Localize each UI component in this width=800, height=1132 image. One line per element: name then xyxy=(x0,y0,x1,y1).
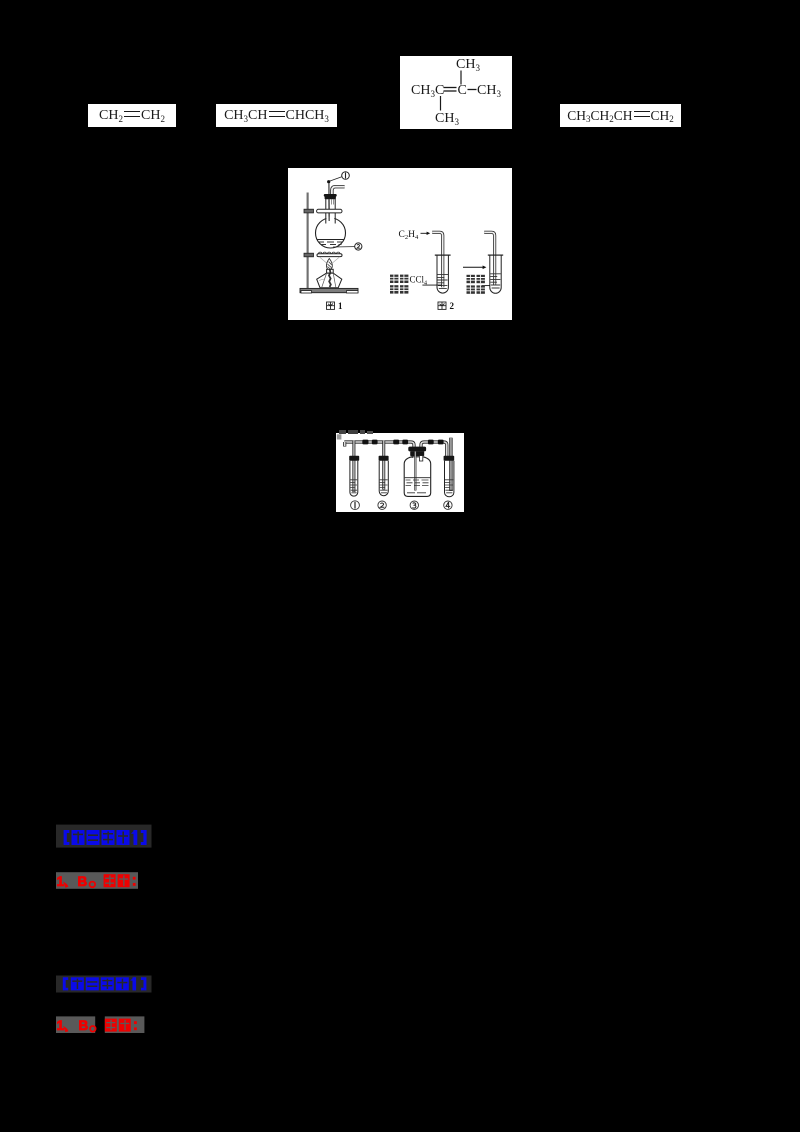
heat cone lines xyxy=(320,257,327,263)
circled 3 xyxy=(410,501,418,509)
svg-text:C2H4: C2H4 xyxy=(399,230,419,241)
wick collar xyxy=(327,269,334,273)
bromine CCl4 text line1 xyxy=(390,275,408,283)
svg-text:CH3: CH3 xyxy=(435,111,459,127)
line 1 glyph xi xyxy=(118,874,130,887)
label 2 leader line xyxy=(333,246,355,248)
rubber connector 4 xyxy=(402,440,408,445)
bottle stopper cap xyxy=(408,447,426,452)
left tube liquid xyxy=(437,275,448,289)
inner tube into tube2 xyxy=(382,441,385,490)
circled 2 xyxy=(378,501,386,509)
rubber connector 1 xyxy=(362,440,368,445)
svg-text:CH3C: CH3C xyxy=(411,83,444,99)
thermometer inside neck xyxy=(328,199,330,221)
line 1 colon xyxy=(133,877,136,880)
wick braid xyxy=(329,270,331,288)
alcohol lamp body xyxy=(317,273,342,288)
heading 1 glyph 1 xyxy=(72,830,85,845)
label 1 leader line xyxy=(329,177,342,182)
line 2 highlight backing b xyxy=(105,1016,145,1033)
line 1 full stop xyxy=(90,882,96,888)
cropped gray square remnant xyxy=(337,434,342,439)
svg-text:CCl4: CCl4 xyxy=(410,275,428,287)
figure 2 gas train white panel xyxy=(336,433,464,512)
line 1 comma xyxy=(63,882,68,888)
caption Fig2 glyph xyxy=(438,302,446,309)
test tube 1 glass xyxy=(350,461,358,496)
answer heading 2 xyxy=(56,974,153,994)
flask neck xyxy=(325,199,327,224)
heading 1 left bracket xyxy=(64,830,70,845)
heading 1 highlight backing xyxy=(56,825,152,848)
bromine CCl4 text line2 xyxy=(390,285,408,293)
cropped text remnants above gas train xyxy=(339,430,346,434)
stopper tube2 xyxy=(379,456,389,461)
right test tube xyxy=(490,255,501,293)
clamp knob upper xyxy=(304,209,314,213)
label 2 circle xyxy=(355,243,362,250)
double bond xyxy=(444,87,457,89)
delivery tube bent xyxy=(332,187,345,195)
heading 2 highlight backing xyxy=(56,976,152,993)
heading 1 digit xyxy=(134,830,138,845)
tube1 liquid xyxy=(350,480,357,493)
svg-text:2: 2 xyxy=(450,301,455,311)
bottle outlet stub xyxy=(419,456,422,461)
figure 1 apparatus white panel xyxy=(288,168,512,320)
svg-text:C: C xyxy=(458,83,467,98)
caption Fig1 glyph xyxy=(327,302,335,309)
flask bulb xyxy=(316,218,346,248)
bond top vertical xyxy=(460,71,462,85)
line 2 comma xyxy=(63,1026,68,1032)
clamp bar upper xyxy=(317,209,342,213)
heading 2 digit xyxy=(133,977,137,990)
heading 1 glyph 4 xyxy=(117,830,130,845)
colorless liquid text line1 xyxy=(467,275,485,283)
svg-text:1: 1 xyxy=(57,874,65,889)
svg-text:B: B xyxy=(79,1018,89,1033)
clamp knob lower xyxy=(304,253,314,257)
right bent delivery tube xyxy=(484,232,494,285)
inner tube into tube1 xyxy=(352,441,355,492)
test tube 4 glass xyxy=(445,461,454,497)
heading 2 left bracket xyxy=(63,977,68,990)
heading 2 glyph 3 xyxy=(101,977,114,990)
manifold left stub elbow xyxy=(343,442,346,447)
manifold tube run A into bottle xyxy=(344,442,414,449)
stand rod xyxy=(307,193,309,290)
single bond dash xyxy=(468,89,477,91)
colorless label pointer xyxy=(482,285,490,287)
wire gauze bumps xyxy=(319,252,340,254)
liquid level in flask xyxy=(317,239,344,241)
line 2 glyph xi xyxy=(119,1019,131,1032)
flame xyxy=(326,259,332,270)
left test tube xyxy=(437,255,448,293)
rubber connector 5 xyxy=(428,440,434,445)
stopper tube1 xyxy=(349,456,359,461)
thermometer top dot xyxy=(327,180,330,183)
manifold run B bottle to tube4 xyxy=(421,442,447,457)
answer line 2 xyxy=(56,1016,146,1034)
heading 1 glyph 2 xyxy=(87,830,100,845)
label 1 circle xyxy=(342,172,350,180)
formula box: 2-butene CH3CH=CHCH3 xyxy=(216,104,337,127)
left bent delivery tube xyxy=(432,232,443,287)
bond bottom vertical xyxy=(440,96,442,111)
gas washing bottle body xyxy=(404,457,431,497)
svg-text:1: 1 xyxy=(338,301,343,311)
line 2 highlight backing a xyxy=(56,1016,95,1033)
line 2 full stop xyxy=(90,1026,96,1032)
tall gray inlet tube of tube4 xyxy=(449,438,452,491)
heading 1 glyph 3 xyxy=(102,830,115,845)
inner tube stub in neck xyxy=(331,199,333,205)
line 1 glyph jie xyxy=(104,874,116,887)
middle arrow xyxy=(463,266,484,268)
rubber connector 6 xyxy=(438,440,444,445)
formula box: ethene CH2=CH2 xyxy=(88,104,176,127)
test tube 2 glass xyxy=(379,461,388,496)
C2H4 arrow xyxy=(421,232,428,234)
heading 2 right bracket xyxy=(141,977,146,990)
bromine label pointer xyxy=(422,284,442,286)
line 1 highlight backing xyxy=(56,872,138,889)
iron ring xyxy=(317,254,342,257)
thermometer stem xyxy=(328,183,330,243)
formula box: 2,3-dimethyl-2-butene structural formula xyxy=(400,56,512,129)
line 2 glyph jie xyxy=(105,1019,117,1032)
bottle inner tube xyxy=(414,452,416,491)
svg-text:CH3: CH3 xyxy=(456,57,480,73)
svg-text:CH3: CH3 xyxy=(477,83,501,99)
line 2 colon xyxy=(134,1021,137,1024)
gas washing bottle neck xyxy=(411,456,413,458)
heading 1 right bracket xyxy=(141,830,147,845)
svg-text:B: B xyxy=(78,874,88,889)
colorless liquid text line2 xyxy=(467,285,485,293)
stand base xyxy=(300,288,358,292)
stopper tube4 xyxy=(444,456,455,461)
answer line 1 xyxy=(56,872,146,890)
rubber connector 3 xyxy=(393,440,399,445)
heading 2 glyph 1 xyxy=(71,977,84,990)
svg-text:1: 1 xyxy=(57,1018,65,1033)
tube2 liquid xyxy=(380,480,388,493)
right tube liquid xyxy=(490,274,501,288)
rubber connector 2 xyxy=(372,440,378,445)
heading 2 glyph 2 xyxy=(86,977,99,990)
formula box: 1-butene CH3CH2CH=CH2 xyxy=(560,104,681,127)
circled 1 xyxy=(351,501,360,510)
bottle liquid xyxy=(405,477,431,479)
circled 4 xyxy=(444,501,452,509)
tube4 liquid xyxy=(445,480,453,493)
answer heading 1 xyxy=(56,824,153,848)
stopper xyxy=(324,194,337,197)
heading 2 glyph 4 xyxy=(116,977,129,990)
